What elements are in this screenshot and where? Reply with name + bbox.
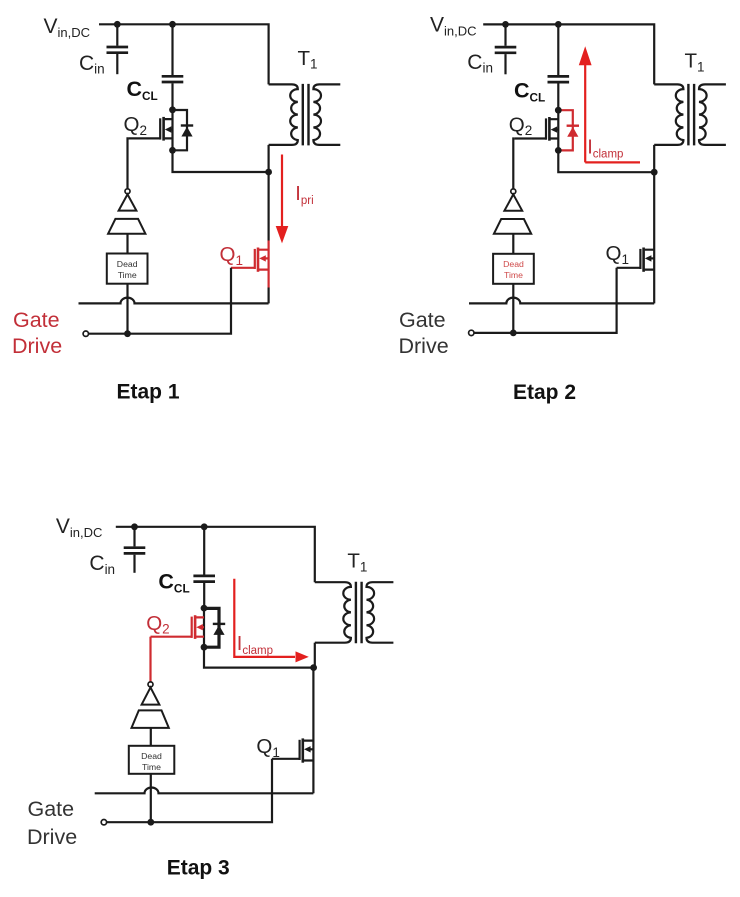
transformer T1 (E2)	[654, 84, 726, 145]
label Q2 (E2)	[509, 113, 532, 138]
junction node primary/Q1	[265, 169, 272, 176]
junction node Cin top	[114, 21, 121, 28]
svg-text:Drive: Drive	[27, 825, 77, 849]
wire node to Q1 drain	[268, 172, 270, 241]
svg-text:Gate: Gate	[13, 308, 60, 332]
wire trapezoid to dead time (E2)	[512, 234, 514, 254]
junction node CCL top	[169, 21, 176, 28]
current arrow Iclamp (E3, rightward)	[234, 579, 308, 663]
wire Q2 gate to inverter (E3, red)	[149, 637, 151, 682]
terminal gate drive input (E2)	[469, 330, 474, 335]
current arrow Ipri	[276, 155, 289, 244]
junction node CCL top (E3)	[201, 523, 208, 530]
dead time block (E2, red text)	[493, 254, 534, 284]
label Iclamp (E2)	[587, 137, 623, 161]
capacitor Cin (E2)	[495, 24, 517, 74]
driver trapezoid (E2)	[494, 219, 531, 234]
terminal gate drive input	[83, 331, 88, 336]
inverter bubble (E2)	[511, 189, 516, 194]
wire return rail with crossover hump	[79, 298, 269, 304]
driver trapezoid	[108, 219, 145, 234]
label T1 (E3)	[347, 550, 367, 575]
body diode of Q2 (red, conducting)	[558, 110, 579, 150]
junction node Cin top (E3)	[131, 523, 138, 530]
current arrow Iclamp (E2, upward)	[579, 46, 640, 162]
junction node gate rail / dead time (E3)	[147, 819, 154, 826]
svg-text:Drive: Drive	[399, 334, 449, 358]
label Q1 (E2)	[606, 242, 629, 267]
label Q1 (E3)	[256, 735, 279, 760]
mosfet Q2	[128, 110, 172, 151]
wire Q2 source to primary node (E3)	[204, 647, 313, 667]
junction node CCL top (E2)	[555, 21, 562, 28]
junction node Q2 drain (E3)	[201, 605, 208, 612]
svg-text:Time: Time	[118, 270, 137, 280]
wire top rail Etap2	[483, 24, 654, 84]
svg-text:Etap 1: Etap 1	[117, 380, 180, 403]
wire Q2 gate to inverter	[126, 138, 129, 188]
label Etap 1	[117, 380, 180, 403]
inverter bubble (E3)	[148, 682, 153, 687]
inverter bubble	[125, 189, 130, 194]
junction node Q2 source (E2)	[555, 147, 562, 154]
label Cin (E3)	[89, 552, 115, 577]
wire primary bottom to node (E2)	[653, 145, 655, 172]
dead time block (E3)	[129, 746, 175, 774]
mosfet Q1 (E2)	[617, 241, 655, 288]
svg-text:Drive: Drive	[12, 334, 62, 358]
mosfet Q2 (E3, channel red)	[151, 608, 205, 647]
wire top rail Etap1	[99, 24, 269, 84]
label Iclamp (E3)	[237, 633, 273, 657]
label Etap 2	[513, 381, 576, 404]
wire primary bottom to node	[268, 145, 270, 172]
wire primary bottom to node (E3)	[314, 643, 316, 668]
label CCL (E3)	[158, 570, 189, 596]
junction node Q2 drain	[169, 106, 176, 113]
junction node Q2 source	[169, 147, 176, 154]
svg-text:Dead: Dead	[141, 751, 162, 761]
svg-text:Etap 3: Etap 3	[167, 857, 230, 880]
svg-text:Time: Time	[504, 270, 523, 280]
label Q2 (E3, red)	[146, 612, 169, 637]
label Gate Drive (red)	[12, 308, 62, 358]
wire dead time to gate rail (E2)	[512, 284, 514, 333]
wire trapezoid to dead time	[126, 234, 128, 254]
label Vin,DC (Etap 1)	[44, 15, 91, 40]
svg-text:Etap 2: Etap 2	[513, 381, 576, 404]
label T1	[298, 47, 318, 72]
label Etap 3	[167, 857, 230, 880]
wire return rail with crossover hump (E2)	[469, 298, 654, 304]
junction node primary/Q1 (E2)	[651, 169, 658, 176]
capacitor CCL (E3)	[193, 527, 215, 608]
capacitor Cin (E3)	[124, 527, 146, 573]
wire Q2 source to primary node (E2)	[558, 150, 654, 172]
wire Q1 source to return rail (E3)	[312, 779, 314, 794]
capacitor CCL	[162, 24, 184, 110]
label Q2	[124, 113, 147, 138]
junction node gate rail / dead time	[124, 330, 131, 337]
inverter triangle (E2)	[504, 194, 522, 210]
mosfet Q1 (E3)	[272, 732, 313, 779]
svg-text:Dead: Dead	[503, 259, 524, 269]
body diode of Q2	[173, 110, 194, 150]
wire Q2 gate to inverter (E2)	[512, 139, 515, 189]
junction node Cin top (E2)	[502, 21, 509, 28]
label Cin	[79, 52, 105, 77]
label Gate Drive (E2)	[399, 308, 449, 358]
label Cin (E2)	[467, 51, 493, 76]
inverter triangle (E3)	[142, 687, 160, 704]
mosfet Q2 (E2)	[514, 110, 558, 150]
wire Q1 source to return rail (E2)	[653, 288, 655, 304]
junction node gate rail / dead time (E2)	[510, 330, 517, 337]
label Vin,DC (Etap 2)	[430, 14, 477, 39]
wire return rail with crossover hump (E3)	[95, 787, 314, 793]
svg-text:Time: Time	[142, 762, 161, 772]
label T1 (E2)	[685, 50, 705, 75]
wire gate drive rail (E2)	[474, 268, 617, 333]
body diode of Q2 (E3, bold black)	[204, 608, 225, 647]
wire Q1 source to return rail	[268, 288, 270, 304]
wire gate drive rail (E3)	[107, 759, 272, 822]
mosfet Q1 (red, conducting)	[231, 241, 269, 288]
driver trapezoid (E3)	[132, 710, 169, 728]
wire dead time to gate rail	[126, 284, 128, 334]
capacitor CCL (E2)	[548, 24, 570, 110]
label CCL	[127, 77, 158, 103]
terminal gate drive input (E3)	[101, 820, 106, 825]
capacitor Cin	[107, 24, 129, 74]
label CCL (E2)	[514, 79, 545, 105]
junction node Q2 source (E3)	[201, 644, 208, 651]
label Q1	[220, 243, 243, 268]
wire trapezoid to dead time (E3)	[150, 728, 152, 746]
wire node to Q1 drain (E3)	[312, 668, 314, 732]
wire top rail Etap3	[116, 527, 315, 582]
svg-text:Dead: Dead	[117, 259, 138, 269]
svg-text:Gate: Gate	[28, 797, 75, 821]
label Ipri	[295, 183, 313, 207]
transformer T1	[269, 84, 341, 145]
transformer T1 (E3)	[315, 582, 394, 644]
label Gate Drive (E3)	[27, 797, 77, 849]
junction node primary/Q1 (E3)	[310, 664, 317, 671]
wire gate drive rail	[89, 268, 232, 334]
label Vin,DC (Etap 3)	[56, 515, 103, 540]
wire node to Q1 drain (E2)	[653, 172, 655, 240]
wire dead time to gate rail (E3)	[150, 774, 152, 822]
junction node Q2 drain (E2)	[555, 107, 562, 114]
svg-text:Gate: Gate	[399, 308, 446, 332]
wire Q2 source to primary node	[173, 150, 269, 172]
inverter triangle	[119, 194, 137, 210]
dead time block	[107, 254, 148, 284]
